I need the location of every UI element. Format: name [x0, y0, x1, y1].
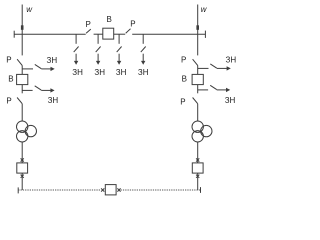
- svg-text:В: В: [8, 74, 13, 83]
- svg-text:Р: Р: [6, 96, 11, 105]
- svg-text:Р: Р: [6, 56, 11, 65]
- svg-text:ЗН: ЗН: [226, 55, 237, 64]
- svg-text:ЗН: ЗН: [47, 56, 58, 65]
- svg-text:ЗН: ЗН: [225, 96, 236, 105]
- svg-text:Р: Р: [130, 20, 135, 29]
- svg-text:Р: Р: [181, 55, 186, 64]
- svg-text:ЗН: ЗН: [94, 68, 105, 77]
- svg-text:ЗН: ЗН: [48, 96, 59, 105]
- svg-text:ЗН: ЗН: [72, 68, 83, 77]
- svg-text:ЗН: ЗН: [138, 68, 149, 77]
- svg-text:В: В: [107, 15, 112, 24]
- svg-text:Р: Р: [180, 98, 185, 107]
- svg-text:Р: Р: [86, 20, 91, 29]
- svg-text:ЗН: ЗН: [116, 68, 127, 77]
- svg-text:В: В: [182, 74, 187, 83]
